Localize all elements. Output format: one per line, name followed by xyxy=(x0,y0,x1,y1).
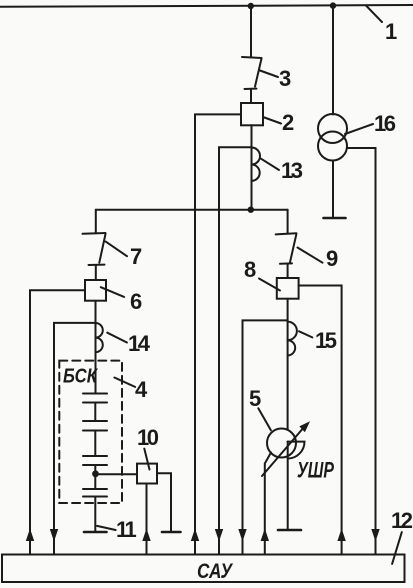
current transformer 13 xyxy=(252,148,261,181)
label 16 leader xyxy=(345,124,373,134)
svg-text:13: 13 xyxy=(281,158,303,183)
wire reactor to ground xyxy=(287,442,289,530)
svg-text:9: 9 xyxy=(326,246,338,271)
wire CT14 measurement to SAU (x=54) xyxy=(54,323,96,555)
wire tap to bypass breaker 10 xyxy=(96,473,138,475)
wire node A down-left to disconnector 7 xyxy=(95,210,97,234)
node tap of BSK xyxy=(92,470,99,477)
current transformer 14 xyxy=(96,323,103,352)
capacitor C2 xyxy=(83,421,107,431)
wire transformer 16 to ground xyxy=(332,161,334,218)
wire transformer 16 measurement to SAU (x=375.5) xyxy=(347,148,376,555)
label 7 leader xyxy=(106,242,127,257)
label 6 leader xyxy=(101,287,124,297)
label 14 leader xyxy=(107,333,127,343)
wire breaker 8 control to SAU (x=341.6) xyxy=(299,286,342,555)
wire C1-C2 xyxy=(94,403,96,422)
label 1 leader xyxy=(366,6,382,23)
svg-text:УШР: УШР xyxy=(297,458,334,483)
wire CT15 measurement to SAU (x=243.3) xyxy=(243,320,288,554)
wire bus to voltage transformer 16 xyxy=(332,6,334,115)
svg-text:16: 16 xyxy=(374,111,396,136)
svg-text:4: 4 xyxy=(135,377,148,402)
bus 1 (power line) xyxy=(0,5,413,7)
wire breaker 2 control to SAU (x=196) xyxy=(195,114,241,554)
wire disconnector 7 to breaker 6 xyxy=(95,265,97,280)
wire C3-C4 with tap node xyxy=(94,465,96,489)
arrow down x=375.5 xyxy=(371,529,379,542)
breaker 8 xyxy=(277,278,299,299)
node: bus tap for voltage transformer xyxy=(330,2,336,8)
svg-text:10: 10 xyxy=(137,425,159,450)
ground 11 xyxy=(84,531,107,534)
wire node A down-right to disconnector 9 xyxy=(287,210,289,234)
label 11 leader xyxy=(97,526,116,530)
wire node A horizontal xyxy=(96,209,288,211)
arrow down x=243.3 xyxy=(238,529,246,542)
wire breaker 10 to its ground xyxy=(157,473,171,531)
label 2 leader xyxy=(263,117,281,124)
arrow up x=30 xyxy=(26,529,34,542)
bypass breaker 10 xyxy=(137,464,157,484)
label 4 leader xyxy=(114,378,135,387)
node A (junction of branches) xyxy=(248,207,254,213)
ground of transformer 16 xyxy=(324,217,346,220)
arrow up x=196 xyxy=(191,529,199,542)
label 15 leader xyxy=(299,331,312,337)
disconnector 7 xyxy=(83,233,106,265)
current transformer 15 xyxy=(288,322,297,356)
svg-text:2: 2 xyxy=(282,110,294,135)
wire breaker 8 down through CT 15 to reactor 5 xyxy=(287,299,289,430)
capacitor C4 xyxy=(83,489,107,497)
wire bus to disconnector 3 xyxy=(250,6,252,58)
voltage transformer 16 xyxy=(318,114,347,161)
svg-text:11: 11 xyxy=(116,517,137,542)
disconnector 9 xyxy=(276,233,297,263)
label 3 leader xyxy=(260,71,278,78)
svg-text:6: 6 xyxy=(130,289,142,314)
label 10 leader xyxy=(144,449,149,470)
capacitor C1 xyxy=(83,394,107,403)
label 5 leader xyxy=(258,408,271,430)
controlled shunt reactor 5 (UShR) circle xyxy=(267,429,296,458)
svg-text:7: 7 xyxy=(130,244,142,269)
wire disconnector 9 to breaker 8 xyxy=(287,264,289,278)
label 8 leader xyxy=(259,279,280,291)
capacitor bank BSK dashed outline 4 xyxy=(59,361,122,503)
svg-text:САУ: САУ xyxy=(197,560,233,583)
wire breaker 6 control to SAU (x=30) xyxy=(30,290,85,554)
svg-text:БСК: БСК xyxy=(63,366,98,388)
wire disconnector 3 to breaker 2 xyxy=(250,89,252,103)
wire CT13 measurement to SAU (x=219) xyxy=(219,147,252,554)
label 9 leader xyxy=(298,248,323,263)
wire breaker 6 down through CT 14 into BSK xyxy=(95,301,97,394)
disconnector 3 xyxy=(242,57,262,89)
breaker 2 xyxy=(241,103,263,125)
reactor winding half-disc xyxy=(288,442,305,459)
arrow down x=54 xyxy=(50,529,58,542)
node: bus tap for feeder xyxy=(248,3,254,9)
svg-text:3: 3 xyxy=(279,66,291,91)
svg-text:8: 8 xyxy=(244,257,256,282)
wire C2-C3 xyxy=(94,431,96,457)
wire reactor control winding to SAU (x=264.8) xyxy=(265,453,271,555)
label 12 leader xyxy=(392,532,402,564)
control unit SAU 12 xyxy=(2,555,405,583)
svg-text:15: 15 xyxy=(315,328,337,353)
wire breaker 2 down through CT 13 to node A xyxy=(251,125,253,209)
wire C4 to ground 11 xyxy=(94,497,96,532)
label 13 leader xyxy=(261,159,279,170)
svg-text:14: 14 xyxy=(128,331,151,356)
arrow up x=264.8 xyxy=(261,529,269,542)
svg-text:5: 5 xyxy=(249,386,261,411)
svg-text:12: 12 xyxy=(391,508,413,533)
arrow up x=341.6 xyxy=(337,529,345,542)
breaker 6 xyxy=(85,280,106,301)
reactor variability arrow xyxy=(262,426,305,476)
wire breaker 10 control to SAU xyxy=(146,484,148,555)
arrow up x=146.5 xyxy=(142,529,150,542)
arrow down x=219 xyxy=(215,529,223,542)
svg-text:1: 1 xyxy=(385,19,397,44)
ground of reactor xyxy=(278,529,301,532)
capacitor C3 xyxy=(83,456,107,465)
ground of breaker 10 xyxy=(162,531,181,534)
